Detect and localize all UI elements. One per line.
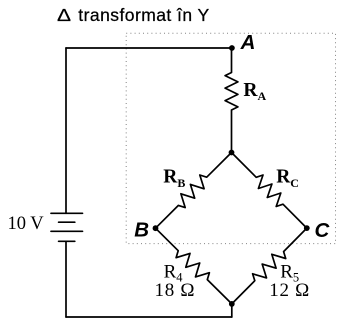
dotted boundary box of Y network: [126, 33, 335, 243]
svg-text:A: A: [240, 31, 256, 54]
svg-text:C: C: [315, 219, 331, 242]
svg-text:RC: RC: [276, 167, 299, 190]
resistor R4 (node B to bottom node): [156, 228, 232, 304]
svg-text:B: B: [134, 219, 149, 242]
svg-text:18 Ω: 18 Ω: [155, 280, 196, 301]
battery V1 : bottom short plate: [59, 240, 75, 242]
center node junction dot: [229, 150, 235, 156]
wire: bottom horizontal from battery to bottom node: [66, 316, 232, 318]
svg-text:12 Ω: 12 Ω: [269, 280, 310, 301]
node C junction dot: [304, 225, 310, 231]
node B junction dot: [153, 225, 159, 231]
wire: left vertical from battery - plate down to bottom wire: [65, 241, 67, 317]
resistor RB (center node to node B): [156, 153, 232, 229]
battery V1 : lower long plate: [51, 230, 83, 232]
svg-text:RB: RB: [163, 167, 185, 190]
wire: stub from bottom node down to bottom wire: [231, 304, 233, 317]
wire: left vertical from top wire down to battery + plate: [65, 48, 67, 213]
resistor RA (vertical, node A to center node): [225, 48, 238, 153]
battery V1 10 V : top long plate: [51, 212, 83, 214]
resistor RC (center node to node C): [232, 153, 307, 229]
svg-text:RA: RA: [243, 80, 266, 103]
svg-text:10 V: 10 V: [8, 214, 45, 234]
resistor R5 (node C to bottom node): [232, 228, 307, 304]
bottom node junction dot: [229, 301, 235, 307]
svg-text:transformat în Y: transformat în Y: [78, 5, 209, 25]
node A junction dot: [229, 45, 235, 51]
svg-text:Δ: Δ: [57, 7, 71, 26]
wire: top horizontal from battery to node A: [66, 47, 232, 49]
battery V1 : upper short plate: [59, 221, 75, 223]
